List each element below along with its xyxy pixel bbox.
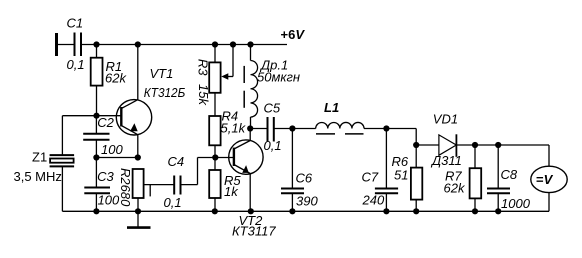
- svg-text:КТ3117: КТ3117: [232, 224, 276, 239]
- svg-text:R3: R3: [195, 59, 210, 76]
- svg-text:=V: =V: [536, 172, 554, 187]
- svg-text:C1: C1: [67, 16, 84, 31]
- svg-text:390: 390: [296, 194, 318, 209]
- svg-text:L1: L1: [324, 100, 339, 115]
- svg-text:VD1: VD1: [433, 111, 458, 126]
- svg-text:C4: C4: [168, 154, 185, 169]
- svg-text:VT1: VT1: [150, 66, 174, 81]
- svg-text:1000: 1000: [501, 196, 531, 211]
- svg-text:1k: 1k: [224, 184, 239, 199]
- svg-text:C7: C7: [362, 170, 379, 185]
- svg-text:51: 51: [394, 168, 408, 183]
- svg-text:240: 240: [362, 193, 385, 208]
- svg-text:62k: 62k: [105, 71, 127, 86]
- svg-text:0,1: 0,1: [164, 195, 182, 210]
- svg-text:C6: C6: [296, 170, 313, 185]
- svg-text:КТ312Б: КТ312Б: [144, 85, 186, 100]
- svg-text:5,1k: 5,1k: [221, 120, 247, 135]
- svg-text:15k: 15k: [196, 84, 211, 106]
- svg-text:+6V: +6V: [281, 27, 306, 42]
- svg-text:100: 100: [101, 142, 123, 157]
- svg-text:3,5 MHz: 3,5 MHz: [14, 169, 62, 184]
- svg-text:100: 100: [98, 193, 120, 208]
- svg-text:C8: C8: [501, 167, 518, 182]
- svg-text:C5: C5: [264, 101, 281, 116]
- svg-text:0,1: 0,1: [264, 138, 282, 153]
- svg-text:Z1: Z1: [32, 150, 47, 165]
- svg-text:C2: C2: [97, 115, 114, 130]
- svg-text:Д311: Д311: [430, 153, 462, 168]
- svg-text:62k: 62k: [444, 180, 466, 195]
- svg-text:50мкгн: 50мкгн: [257, 70, 300, 85]
- svg-text:C3: C3: [97, 169, 114, 184]
- svg-text:0,1: 0,1: [67, 57, 85, 72]
- svg-text:R2680: R2680: [118, 168, 133, 207]
